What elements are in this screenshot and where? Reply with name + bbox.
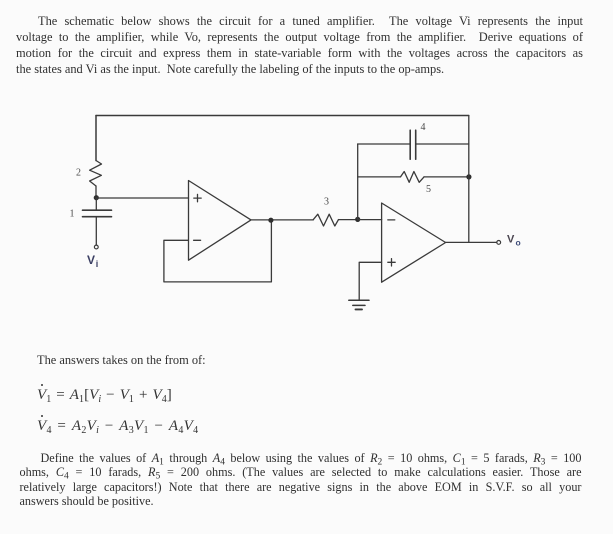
equation 1 bbox=[37, 385, 172, 405]
U1 + pin label bbox=[194, 194, 201, 201]
wire left drop to resistor R2 bbox=[95, 116, 97, 161]
svg-text:o: o bbox=[516, 238, 521, 248]
wire R3 to node C bbox=[339, 219, 358, 221]
wire U1 feedback (- input to output) bbox=[164, 221, 272, 282]
U2 + pin label bbox=[388, 259, 395, 266]
wire U2 + input to ground bbox=[359, 262, 381, 300]
svg-text:V: V bbox=[507, 233, 515, 245]
wire to capacitor C4 left plate bbox=[358, 143, 411, 145]
svg-text:V: V bbox=[87, 253, 95, 267]
U2 - pin label bbox=[388, 219, 395, 221]
op-amp U2 bbox=[382, 203, 446, 282]
wire right vertical (top feedback down to output net) bbox=[468, 116, 470, 243]
wire R5 to node D bbox=[424, 176, 469, 178]
wire U1 output to resistor R3 bbox=[251, 219, 313, 221]
wire node A down to capacitor C1 bbox=[95, 198, 97, 210]
wire node C up to feedback branches bbox=[357, 144, 359, 219]
resistor R3 bbox=[313, 214, 338, 226]
svg-text:4: 4 bbox=[421, 122, 426, 133]
wire U2 output to Vo terminal bbox=[446, 241, 497, 243]
svg-text:3: 3 bbox=[324, 197, 329, 208]
wire node C branch to resistor R5 bbox=[358, 176, 401, 178]
U1 - pin label bbox=[194, 239, 201, 241]
svg-text:2: 2 bbox=[76, 168, 81, 179]
node C junction dot bbox=[355, 217, 360, 222]
terminal Vi (open circle) bbox=[94, 245, 98, 249]
capacitor C4 bbox=[410, 130, 416, 159]
wire R2 bottom to node A bbox=[95, 186, 97, 198]
wire node A to op-amp U1 + input bbox=[96, 197, 189, 199]
paragraph 1 bbox=[16, 13, 583, 77]
paragraph 2 bbox=[37, 352, 206, 368]
capacitor C1 bbox=[83, 210, 112, 217]
node B junction dot at U1 output bbox=[268, 218, 273, 223]
terminal Vo (open circle) bbox=[497, 241, 501, 245]
wire node C to op-amp U2 - input bbox=[358, 219, 382, 221]
svg-text:1: 1 bbox=[70, 209, 75, 220]
wire top feedback from R2 top to right vertical bbox=[96, 115, 469, 117]
svg-text:5: 5 bbox=[426, 184, 431, 195]
resistor R5 bbox=[401, 172, 425, 183]
wire C4 right plate to right vertical bbox=[416, 143, 469, 145]
resistor R2 bbox=[90, 161, 102, 187]
paragraph 3 bbox=[20, 451, 582, 509]
svg-text:i: i bbox=[96, 259, 99, 269]
ground bbox=[349, 300, 369, 309]
node D junction dot bbox=[466, 174, 471, 179]
node A junction dot bbox=[94, 195, 99, 200]
op-amp U1 bbox=[189, 181, 252, 261]
equation 2 bbox=[37, 416, 198, 436]
wire C1 to Vi terminal bbox=[95, 217, 97, 245]
